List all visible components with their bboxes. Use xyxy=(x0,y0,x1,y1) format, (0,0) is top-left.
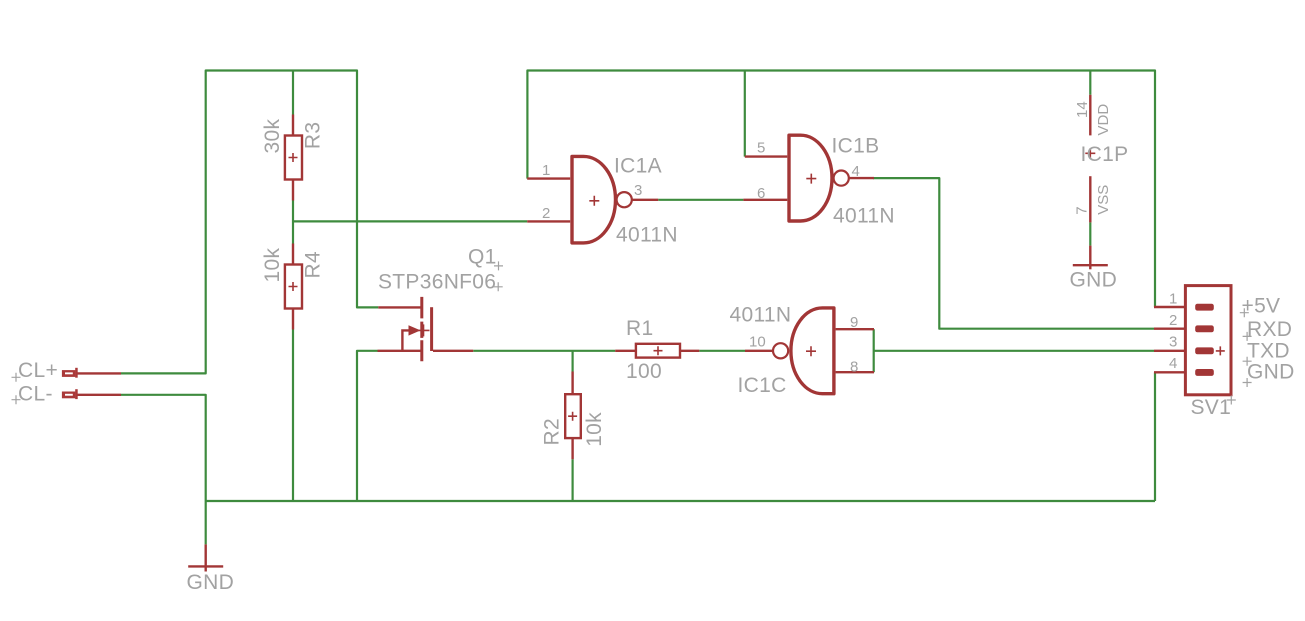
svg-text:6: 6 xyxy=(757,185,765,202)
svg-text:GND: GND xyxy=(1247,361,1295,384)
svg-text:4011N: 4011N xyxy=(730,303,792,326)
svg-text:1: 1 xyxy=(1169,291,1177,308)
svg-text:1: 1 xyxy=(542,162,550,179)
svg-text:VSS: VSS xyxy=(1095,185,1112,215)
svg-text:14: 14 xyxy=(1074,101,1091,118)
svg-text:VDD: VDD xyxy=(1095,104,1112,136)
svg-text:+5V: +5V xyxy=(1242,295,1281,318)
svg-text:10k: 10k xyxy=(261,248,284,283)
svg-text:4011N: 4011N xyxy=(833,204,895,227)
svg-text:IC1A: IC1A xyxy=(614,155,662,178)
svg-text:7: 7 xyxy=(1074,206,1091,214)
svg-text:30k: 30k xyxy=(261,119,284,154)
svg-text:GND: GND xyxy=(187,571,235,594)
svg-text:STP36NF06: STP36NF06 xyxy=(378,270,496,293)
svg-text:IC1C: IC1C xyxy=(738,374,787,397)
svg-text:5: 5 xyxy=(757,139,765,156)
svg-text:2: 2 xyxy=(1169,312,1177,329)
svg-text:Q1: Q1 xyxy=(468,246,497,269)
svg-text:R1: R1 xyxy=(626,317,653,340)
svg-text:R2: R2 xyxy=(540,418,563,445)
svg-text:8: 8 xyxy=(850,358,858,375)
svg-text:CL-: CL- xyxy=(18,383,53,406)
svg-text:CL+: CL+ xyxy=(18,359,58,382)
svg-text:10k: 10k xyxy=(583,412,606,447)
svg-text:GND: GND xyxy=(1070,269,1118,292)
svg-text:IC1P: IC1P xyxy=(1081,143,1129,166)
svg-text:3: 3 xyxy=(1169,334,1177,351)
svg-text:4: 4 xyxy=(1169,355,1177,372)
svg-text:R4: R4 xyxy=(301,251,324,278)
svg-text:4: 4 xyxy=(852,163,860,180)
svg-text:IC1B: IC1B xyxy=(832,135,880,158)
svg-text:TXD: TXD xyxy=(1247,339,1290,362)
svg-text:2: 2 xyxy=(542,205,550,222)
svg-text:SV1: SV1 xyxy=(1191,396,1232,419)
svg-text:10: 10 xyxy=(749,333,766,350)
svg-text:RXD: RXD xyxy=(1247,318,1292,341)
svg-text:3: 3 xyxy=(634,182,642,199)
svg-text:R3: R3 xyxy=(301,122,324,149)
svg-text:4011N: 4011N xyxy=(616,224,678,247)
svg-text:100: 100 xyxy=(626,360,662,383)
svg-text:9: 9 xyxy=(850,314,858,331)
